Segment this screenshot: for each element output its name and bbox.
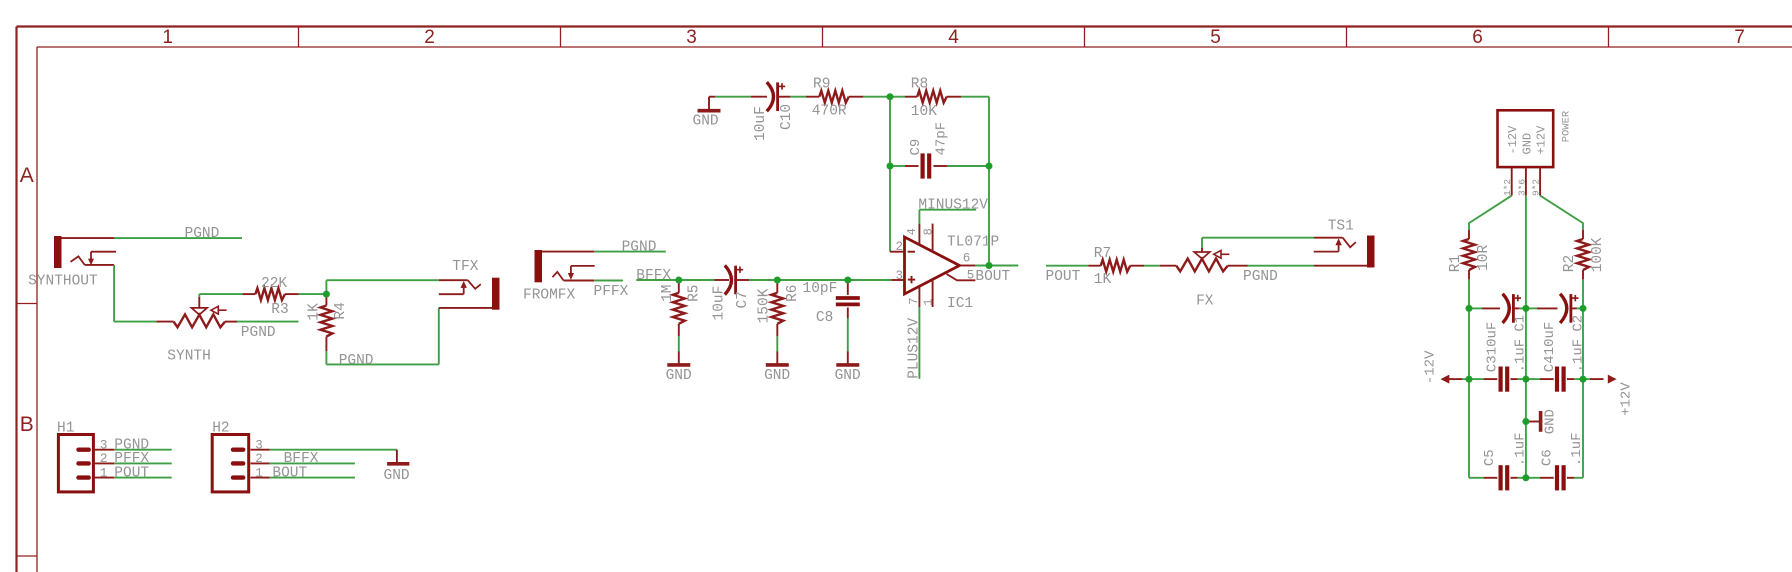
svg-text:PGND: PGND <box>1243 269 1278 285</box>
svg-text:POUT: POUT <box>114 465 149 481</box>
svg-text:1: 1 <box>922 298 936 305</box>
svg-text:2: 2 <box>255 452 263 466</box>
wire POUT into R7 <box>1046 265 1101 267</box>
capacitor C2 10uF (polarized) <box>1526 294 1587 356</box>
H2 pin number 3 <box>255 439 263 453</box>
junction mid rail row2 <box>1522 376 1529 383</box>
svg-text:+12V: +12V <box>1535 125 1549 155</box>
capacitor C10 10uF (polarized) <box>753 82 795 141</box>
svg-text:.1uF: .1uF <box>1569 432 1585 466</box>
svg-text:10R: 10R <box>1476 244 1492 270</box>
wire PGND from FX to TS1 sleeve <box>1228 265 1367 267</box>
svg-text:10uF: 10uF <box>1485 322 1501 356</box>
wire R8 to output rail <box>947 97 989 166</box>
svg-text:7: 7 <box>907 297 921 304</box>
label PGND on H1 pin 3 <box>114 438 149 454</box>
op-amp output pin 6 wire <box>960 252 1019 266</box>
svg-text:PLUS12V: PLUS12V <box>907 318 923 379</box>
ground GND at H2 pin 3 <box>384 464 410 484</box>
capacitor C5 .1uF <box>1469 432 1529 490</box>
connector TS1 (audio jack) <box>1314 219 1375 268</box>
junction left rail row1 <box>1466 305 1473 312</box>
svg-text:-12V: -12V <box>1506 125 1520 155</box>
svg-text:R6: R6 <box>785 284 801 301</box>
capacitor C1 10uF (polarized) <box>1469 294 1528 356</box>
wire node up to TFX tip <box>326 280 467 294</box>
svg-text:22K: 22K <box>261 276 287 292</box>
right rail row1-row2 <box>1582 308 1584 379</box>
connector H1 <box>57 420 93 492</box>
op-amp pin 8 stub <box>922 224 936 252</box>
svg-text:C3: C3 <box>1485 355 1501 372</box>
ground GND below R6 <box>764 352 790 385</box>
wire PGND from R4 to TFX sleeve <box>326 308 492 365</box>
svg-text:C4: C4 <box>1542 355 1558 372</box>
svg-text:GND: GND <box>835 368 861 384</box>
svg-text:IC1: IC1 <box>947 296 973 312</box>
junction node R6 <box>774 277 781 284</box>
svg-text:470R: 470R <box>812 103 847 119</box>
wire R1 to left rail <box>1468 270 1470 308</box>
svg-text:PGND: PGND <box>622 240 657 256</box>
wire C10 to R9 <box>778 96 820 98</box>
resistor R5 <box>660 280 702 324</box>
connector FROMFX (audio jack) <box>523 250 595 303</box>
svg-text:POUT: POUT <box>1046 269 1081 285</box>
label BOUT on H2 pin 1 <box>272 465 307 481</box>
wire FX wiper to TS1 tip <box>1202 238 1343 252</box>
wire C8 to ground <box>847 308 849 352</box>
svg-text:H2: H2 <box>212 420 229 436</box>
svg-text:5: 5 <box>1210 27 1221 48</box>
wire R5 to ground <box>678 324 680 352</box>
arrow +12V <box>1583 375 1634 416</box>
svg-text:C5: C5 <box>1482 449 1498 466</box>
wire node to op-amp pin 3 <box>848 279 905 281</box>
svg-text:C7: C7 <box>735 291 751 308</box>
svg-text:1M: 1M <box>660 284 676 301</box>
label BFFX on H2 pin 2 <box>284 451 319 467</box>
wire R2 to right rail <box>1582 270 1584 308</box>
mid rail row1-row2 <box>1525 308 1527 379</box>
svg-text:.1uF: .1uF <box>1571 339 1587 373</box>
wire R7 to FX pot <box>1130 265 1176 267</box>
wire node to C7 <box>679 279 729 281</box>
left rail row1-row2 <box>1468 308 1470 379</box>
svg-text:3: 3 <box>896 269 904 283</box>
svg-text:R3: R3 <box>271 302 288 318</box>
connector H2 <box>212 420 249 492</box>
wire node down to C9 and pin 2 <box>890 97 905 252</box>
svg-text:R7: R7 <box>1094 246 1111 262</box>
svg-text:SYNTH: SYNTH <box>167 349 211 365</box>
label PFFX <box>594 284 629 300</box>
svg-text:+12V: +12V <box>1618 382 1634 416</box>
capacitor C8 10pF <box>816 280 860 326</box>
label 10pF (value of C8) <box>803 281 838 297</box>
svg-text:PGND: PGND <box>339 353 374 369</box>
junction left rail row2 <box>1466 376 1473 383</box>
svg-text:150K: 150K <box>756 288 772 323</box>
svg-text:47pF: 47pF <box>934 122 950 156</box>
svg-text:4: 4 <box>948 27 959 48</box>
svg-text:GND: GND <box>666 368 692 384</box>
capacitor C9 47pF <box>890 122 989 179</box>
svg-text:TL071P: TL071P <box>947 234 999 250</box>
ground GND at C10 input <box>693 97 721 130</box>
svg-text:A: A <box>20 164 34 187</box>
capacitor C7 10uF (polarized) <box>711 265 751 320</box>
svg-text:10uF: 10uF <box>1542 322 1558 356</box>
junction C9 right <box>986 163 993 170</box>
POWER pin 9*2 <box>1531 167 1542 196</box>
H1 pin 1 wire <box>93 477 171 479</box>
wire R9 to node <box>849 96 890 98</box>
H1 pin 3 wire <box>93 449 171 451</box>
svg-text:2: 2 <box>896 240 904 254</box>
svg-text:POWER: POWER <box>1560 110 1572 142</box>
arrow -12V <box>1423 350 1469 384</box>
svg-text:BOUT: BOUT <box>272 465 307 481</box>
svg-text:.1uF: .1uF <box>1513 432 1529 466</box>
junction mid rail row1 <box>1522 305 1529 312</box>
ground GND at power mid rail <box>1526 409 1559 434</box>
junction right rail row2 <box>1580 376 1587 383</box>
ground GND below C8 <box>835 352 861 385</box>
H1 pin number 1 <box>100 465 108 480</box>
svg-text:GND: GND <box>1543 409 1559 434</box>
resistor R4 <box>307 294 350 336</box>
svg-text:C8: C8 <box>816 310 833 326</box>
wire BFFX into amp input node <box>636 279 679 281</box>
svg-text:1: 1 <box>162 27 173 48</box>
op-amp pin 7 stub <box>907 287 921 307</box>
wire -12V pin to R1 <box>1469 196 1512 239</box>
resistor R3 <box>255 276 288 318</box>
svg-text:FROMFX: FROMFX <box>523 287 576 303</box>
svg-text:C10: C10 <box>779 104 795 130</box>
wire GND to C10 <box>709 96 767 98</box>
svg-text:2: 2 <box>100 451 108 466</box>
resistor R7 <box>1094 246 1130 288</box>
svg-text:H1: H1 <box>57 420 74 436</box>
label PGND (net at TS1 sleeve) <box>1243 269 1278 285</box>
svg-text:100K: 100K <box>1590 237 1606 272</box>
capacitor C3 .1uF <box>1469 339 1528 392</box>
svg-text:R4: R4 <box>333 302 349 319</box>
svg-text:1*2: 1*2 <box>1502 179 1513 196</box>
svg-text:5: 5 <box>967 269 975 283</box>
wire PGND from SYNTHOUT sleeve <box>114 237 242 239</box>
svg-text:10pF: 10pF <box>803 281 838 297</box>
svg-text:B: B <box>20 413 34 436</box>
H2 pin 3 wire to GND <box>251 450 397 462</box>
wire PFFX from FROMFX tip <box>594 280 623 282</box>
op-amp pin 3 number <box>896 269 904 283</box>
left rail row2-bottom <box>1468 379 1470 478</box>
junction C9 left <box>887 163 894 170</box>
connector SYNTHOUT (audio jack) <box>28 236 116 289</box>
junction mid rail gnd row <box>1522 418 1529 425</box>
svg-text:BOUT: BOUT <box>975 269 1010 285</box>
junction mid rail bottom <box>1522 474 1529 481</box>
H1 pin 2 wire <box>93 462 171 464</box>
wire node to C8 node <box>777 279 848 281</box>
svg-text:10uF: 10uF <box>711 286 727 321</box>
junction node C8 <box>844 277 851 284</box>
junction output/feedback <box>986 262 993 269</box>
POWER pin 3*6 <box>1516 167 1527 196</box>
label PGND (net of SYNTHOUT sleeve) <box>185 226 220 242</box>
op-amp IC1 TL071P <box>905 234 1000 312</box>
svg-text:3: 3 <box>686 27 697 48</box>
svg-text:GND: GND <box>1520 133 1534 155</box>
svg-text:10K: 10K <box>911 104 937 120</box>
resistor R6 <box>756 280 801 324</box>
potentiometer FX <box>1176 250 1229 309</box>
POWER pin 1*2 <box>1502 167 1513 196</box>
resistor R8 <box>890 76 947 120</box>
svg-text:TFX: TFX <box>452 259 478 275</box>
svg-text:4: 4 <box>905 228 919 235</box>
connector POWER box <box>1498 110 1573 167</box>
op-amp pin 1 stub <box>922 280 936 307</box>
svg-text:.1uF: .1uF <box>1512 339 1528 373</box>
H2 pin number 1 <box>255 466 263 480</box>
svg-text:1K: 1K <box>1094 272 1112 288</box>
label PGND (net of FROMFX sleeve) <box>622 240 657 256</box>
wire from SYNTHOUT tip down to SYNTH pot <box>114 265 174 322</box>
svg-text:1K: 1K <box>307 303 323 321</box>
op-amp pin 2 number <box>896 240 904 254</box>
svg-text:R8: R8 <box>911 76 928 92</box>
op-amp pin 4 stub <box>905 224 920 245</box>
op-amp pin 5 stub with BOUT <box>947 269 1011 286</box>
H1 pin number 2 <box>100 451 108 466</box>
H2 pin 2 wire <box>251 462 355 464</box>
svg-text:1: 1 <box>255 466 263 480</box>
svg-text:BFFX: BFFX <box>636 268 671 284</box>
label POUT on H1 pin 1 <box>114 465 149 481</box>
svg-text:GND: GND <box>764 368 790 384</box>
svg-text:PGND: PGND <box>185 226 220 242</box>
svg-text:R9: R9 <box>813 76 830 92</box>
wire GND pin down middle rail <box>1525 196 1527 309</box>
svg-text:3: 3 <box>255 439 263 453</box>
svg-text:TS1: TS1 <box>1328 219 1354 235</box>
svg-text:9*2: 9*2 <box>1531 179 1542 196</box>
svg-text:R1: R1 <box>1448 255 1464 272</box>
junction node BFFX / R5 <box>675 277 682 284</box>
svg-text:2: 2 <box>424 27 435 48</box>
mid rail row2-gnd <box>1525 379 1527 421</box>
capacitor C6 .1uF <box>1526 432 1585 490</box>
H2 pin 1 wire <box>251 477 355 479</box>
label PLUS12V net from pin 7 <box>907 307 923 379</box>
svg-text:10uF: 10uF <box>753 106 769 141</box>
svg-text:6: 6 <box>1472 27 1483 48</box>
svg-text:MINUS12V: MINUS12V <box>918 197 988 213</box>
connector TFX (audio jack) <box>439 259 500 310</box>
svg-text:SYNTHOUT: SYNTHOUT <box>28 273 98 289</box>
label PFFX on H1 pin 2 <box>114 451 149 467</box>
wire R6 to ground <box>776 324 778 352</box>
resistor R2 <box>1562 237 1606 272</box>
svg-text:PFFX: PFFX <box>594 284 629 300</box>
svg-text:PGND: PGND <box>241 325 276 341</box>
svg-text:GND: GND <box>384 468 410 484</box>
label POUT <box>1046 269 1081 285</box>
svg-text:3*6: 3*6 <box>1516 179 1527 196</box>
label MINUS12V net to pin 4 <box>918 197 988 223</box>
capacitor C4 .1uF <box>1526 339 1587 392</box>
svg-text:GND: GND <box>693 114 719 130</box>
junction right rail row1 <box>1580 305 1587 312</box>
wire C7 to R6 node <box>736 279 778 281</box>
svg-text:-12V: -12V <box>1423 350 1439 384</box>
svg-text:C6: C6 <box>1539 449 1555 466</box>
label PGND (net at SYNTH right terminal) <box>241 325 276 341</box>
svg-text:C2: C2 <box>1571 315 1587 332</box>
wire from R3 to node <box>285 293 327 295</box>
right rail row2-bottom <box>1582 379 1584 478</box>
H2 pin number 2 <box>255 452 263 466</box>
svg-text:8: 8 <box>922 228 936 235</box>
wire output rail down <box>988 166 990 266</box>
ground GND below R5 <box>666 352 692 385</box>
mid rail gnd-bottom <box>1525 422 1527 478</box>
svg-text:7: 7 <box>1734 27 1745 48</box>
wire PGND from FROMFX sleeve <box>594 251 666 253</box>
label PGND (net at TFX sleeve) <box>339 353 374 369</box>
svg-text:C9: C9 <box>908 139 924 156</box>
svg-text:R5: R5 <box>686 284 702 301</box>
label BFFX <box>636 268 671 284</box>
wire from SYNTH wiper to resistor R3 <box>199 294 255 308</box>
svg-text:1: 1 <box>100 465 108 480</box>
junction node R3/R4/TFX <box>323 291 330 298</box>
resistor R1 <box>1448 239 1492 272</box>
wire +12V pin to R2 <box>1540 196 1583 239</box>
svg-text:R2: R2 <box>1562 255 1578 272</box>
wire PGND at SYNTH right terminal <box>225 321 299 323</box>
junction node R9/R8/C9 <box>887 93 894 100</box>
svg-text:FX: FX <box>1196 293 1214 309</box>
potentiometer SYNTH <box>167 306 226 364</box>
H1 pin number 3 <box>100 438 108 453</box>
resistor R9 <box>812 76 849 119</box>
svg-text:6: 6 <box>963 252 971 266</box>
